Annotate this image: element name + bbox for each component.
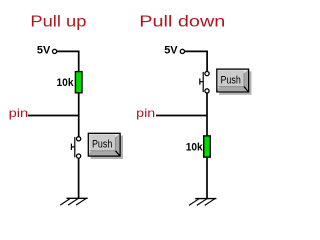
value label 10k (right) — [186, 142, 204, 154]
Push button graphic (right) — [217, 69, 252, 95]
push switch SW2 (right): bridge bar — [202, 72, 204, 92]
label 5V (right supply) — [164, 45, 178, 57]
svg-text:Pull down: Pull down — [139, 13, 225, 30]
svg-text:Push: Push — [221, 74, 241, 86]
power terminal 5V (right) — [180, 49, 184, 53]
push switch SW2 (right): bottom contact — [205, 89, 209, 93]
svg-text:Pull up: Pull up — [30, 13, 86, 30]
wire 5V terminal to switch SW2 top (right) — [185, 51, 208, 71]
wire switch SW1 bottom to ground (left) — [78, 158, 80, 198]
ground symbol (right) — [189, 199, 217, 206]
push switch SW1 (left): bottom contact — [77, 154, 81, 158]
push switch SW1 (left): top contact — [77, 137, 81, 141]
ground symbol (left) — [60, 198, 87, 205]
svg-text:Push: Push — [92, 138, 112, 150]
wire pin stub (left) — [28, 115, 79, 117]
svg-text:5V: 5V — [164, 45, 178, 57]
title: Pull up — [30, 13, 86, 30]
wire resistor R1 bottom to switch SW1 top, through pin junction — [78, 93, 80, 136]
wire 5V terminal to top of resistor R1 (left) — [57, 51, 79, 71]
push switch SW1 (left): actuator shaft — [71, 146, 74, 148]
svg-text:10k: 10k — [57, 77, 75, 89]
push switch SW2 (right): actuator cap — [199, 78, 201, 84]
resistor R1 10k (left, pull-up) — [75, 72, 82, 93]
svg-text:10k: 10k — [186, 142, 204, 154]
node label pin (left) — [9, 106, 29, 120]
push switch SW1 (left): bridge bar — [74, 137, 76, 157]
power terminal 5V (left) — [53, 49, 57, 53]
resistor R2 10k (right, pull-down) — [204, 136, 211, 157]
node label pin (right) — [136, 106, 155, 120]
svg-text:pin: pin — [9, 106, 29, 120]
wire resistor R2 bottom to ground (right) — [206, 158, 208, 199]
push switch SW2 (right): actuator shaft — [200, 81, 203, 83]
push switch SW1 (left): actuator cap — [70, 144, 72, 150]
wire switch SW2 bottom to resistor R2 top, through pin junction (right) — [206, 93, 208, 136]
Push button graphic (left) — [88, 133, 123, 159]
label 5V (left supply) — [37, 45, 51, 57]
svg-text:5V: 5V — [37, 45, 51, 57]
push switch SW2 (right): top contact — [205, 72, 209, 76]
svg-text:pin: pin — [136, 106, 155, 120]
value label 10k (left) — [57, 77, 75, 89]
wire pin stub (right) — [156, 115, 207, 117]
title: Pull down — [139, 13, 225, 30]
